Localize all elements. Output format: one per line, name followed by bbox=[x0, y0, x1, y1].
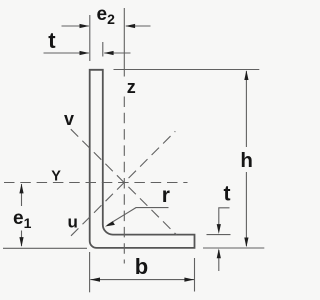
dimension t (right, flange thickness) bbox=[217, 208, 230, 271]
svg-text:v: v bbox=[64, 109, 74, 129]
axis Y (horizontal dashed centroid axis) bbox=[4, 182, 188, 184]
extension line bottom edge to the right (for h) bbox=[203, 247, 264, 249]
svg-text:z: z bbox=[127, 77, 136, 97]
extension line flange end below profile (for b) bbox=[194, 258, 196, 292]
svg-text:t: t bbox=[48, 28, 56, 53]
extension line flange top face to the right (for t) bbox=[207, 234, 231, 236]
svg-text:t: t bbox=[224, 183, 231, 206]
axis z (vertical dashed centroid axis) bbox=[123, 97, 125, 264]
extension line bottom edge to the left (for e1) bbox=[3, 247, 87, 249]
svg-text:b: b bbox=[135, 254, 148, 279]
dimension b bbox=[90, 278, 194, 282]
extension line left face above profile bbox=[89, 15, 91, 61]
axis v (diagonal dashed, upper-left to lower-right) bbox=[71, 129, 177, 235]
extension line z axis above profile (for e2) bbox=[123, 8, 125, 77]
extension line top edge to the right (for h) bbox=[114, 69, 260, 71]
dimension e2 bbox=[62, 24, 151, 28]
axis u (diagonal dashed, lower-left to upper-right) bbox=[71, 131, 175, 236]
dimension t (top, leg thickness) bbox=[44, 51, 131, 55]
extension line right face of leg (for t) bbox=[102, 42, 104, 57]
svg-text:u: u bbox=[68, 212, 78, 231]
leader r with arrow to fillet bbox=[105, 208, 169, 227]
dimension e1 bbox=[19, 184, 23, 247]
svg-text:r: r bbox=[162, 184, 170, 207]
angle profile outline bbox=[90, 70, 195, 248]
dimension h bbox=[244, 70, 248, 247]
svg-text:h: h bbox=[240, 149, 253, 172]
svg-text:Y: Y bbox=[51, 169, 61, 185]
extension line left face below profile (for b) bbox=[89, 252, 91, 292]
